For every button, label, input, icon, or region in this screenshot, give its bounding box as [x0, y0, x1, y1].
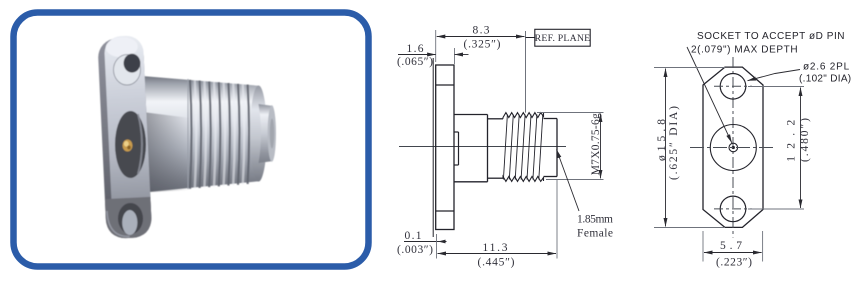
photo: thread grooves [190, 80, 249, 189]
bottom hole centerline [714, 208, 752, 210]
thread profile [503, 113, 544, 182]
dim o15.8 [654, 67, 725, 69]
ref plane vertical line [525, 31, 527, 113]
photo: thread ridge highlights [195, 80, 245, 188]
rear insulator step [454, 132, 459, 165]
blue rounded frame [14, 13, 369, 267]
svg-text:(.625″ DIA): (.625″ DIA) [668, 106, 680, 180]
center horizontal centerline [690, 147, 776, 149]
hole leader [748, 70, 801, 81]
svg-text:(.445″): (.445″) [478, 257, 515, 269]
photo: front nose cylinder [259, 104, 274, 163]
thread flank lines [503, 115, 542, 180]
front section outline [544, 119, 558, 177]
svg-text:1.85mm: 1.85mm [577, 214, 613, 226]
photo: collar shadow near flange [0, 0, 1, 1]
flange rear face line (0.1 offset) [432, 58, 434, 237]
svg-text:0.1: 0.1 [405, 230, 422, 242]
photo: flange [97, 35, 152, 239]
svg-text:(.223″): (.223″) [716, 256, 752, 268]
svg-text:Female: Female [577, 228, 613, 240]
photo: center recessed socket cavity [115, 111, 146, 178]
center body circle [710, 125, 756, 171]
neck outline [488, 119, 504, 178]
dim 11.3 [436, 234, 438, 259]
svg-text:8.3: 8.3 [473, 25, 490, 37]
dim 8.3 [435, 30, 437, 62]
svg-text:(.102" DIA): (.102" DIA) [799, 74, 851, 85]
photo: front nose tip cap [268, 105, 276, 161]
connector photo group [97, 35, 276, 239]
svg-text:1.6: 1.6 [407, 43, 424, 55]
photo: bottom mounting hole [118, 203, 143, 234]
top hole [720, 74, 746, 100]
photo: gold center contact [123, 140, 133, 152]
svg-text:M7X0.75-6g: M7X0.75-6g [590, 113, 602, 175]
svg-text:REF. PLANE: REF. PLANE [535, 33, 591, 44]
vertical centerline [732, 57, 734, 238]
dim 12.2 [748, 86, 804, 88]
svg-text:ø2.6 2PL: ø2.6 2PL [803, 62, 850, 73]
svg-text:(.325″): (.325″) [464, 38, 501, 50]
photo: cylinder body [142, 76, 260, 193]
dim 5.7 [702, 231, 704, 262]
bottom hole [720, 196, 746, 222]
center socket circle [729, 143, 738, 152]
dim M7X0.75-6g [537, 112, 604, 114]
centerline horizontal [399, 146, 566, 148]
dim 1.6 [454, 48, 456, 64]
svg-text:SOCKET TO ACCEPT øD PIN: SOCKET TO ACCEPT øD PIN [697, 31, 845, 42]
svg-text:(.065″): (.065″) [397, 56, 433, 68]
svg-text:11.3: 11.3 [483, 242, 508, 254]
body outline [454, 115, 488, 182]
svg-text:5.7: 5.7 [720, 240, 742, 252]
flange outline front view [703, 67, 763, 227]
ref plane box [535, 29, 590, 46]
side view drawing [397, 25, 613, 269]
svg-text:(.480″): (.480″) [799, 118, 811, 162]
photo: chamfer ring at thread end [250, 86, 267, 182]
label 1.85mm Female [557, 150, 580, 212]
flange outline side view [436, 65, 454, 230]
svg-text:(.003″): (.003″) [397, 244, 433, 256]
svg-text:2(.079") MAX DEPTH: 2(.079") MAX DEPTH [691, 44, 798, 55]
top hole centerline [714, 85, 752, 87]
photo: top mounting hole [114, 55, 141, 85]
dim 0.1 [404, 241, 447, 243]
front view drawing [654, 31, 851, 268]
photo: collar edge line [187, 79, 189, 189]
socket leader [687, 47, 732, 143]
